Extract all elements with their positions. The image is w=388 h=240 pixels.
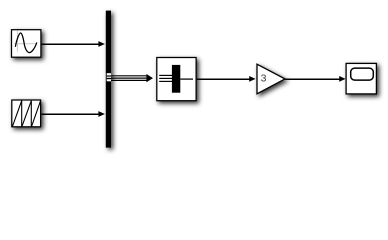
wire sine to mux [42, 43, 100, 45]
arrowhead into mux (bottom input) [98, 111, 105, 117]
gain value label 3 [261, 73, 267, 85]
block Scope [346, 63, 376, 94]
block Sine Wave [12, 30, 41, 58]
block Mux (vertical bar) [106, 11, 111, 148]
block Selector / Multiplexer (square with bar icon) [157, 58, 196, 101]
sine icon curve [15, 33, 36, 53]
arrowhead into gain [249, 76, 255, 82]
scope screen [351, 68, 374, 80]
sawtooth icon [12, 101, 40, 127]
selector icon: output line [180, 78, 193, 80]
svg-text:3: 3 [261, 73, 267, 85]
selector icon: three input lines [159, 75, 172, 81]
wire selector to gain [197, 78, 250, 80]
wire mux to selector: wide (vector) triple line [111, 76, 147, 81]
arrowhead (wide line) into selector block [146, 74, 153, 82]
mux output port notch [107, 73, 111, 81]
block Gain (triangle) [257, 64, 285, 94]
selector icon: thick vertical bar [172, 65, 180, 93]
block Repeating Sequence (sawtooth) [12, 100, 41, 127]
arrowhead into mux (top input) [98, 41, 105, 47]
arrowhead into scope [339, 76, 345, 82]
sine icon axes [14, 31, 37, 52]
wire gain to scope [285, 78, 340, 80]
wire sawtooth to mux [41, 113, 99, 115]
